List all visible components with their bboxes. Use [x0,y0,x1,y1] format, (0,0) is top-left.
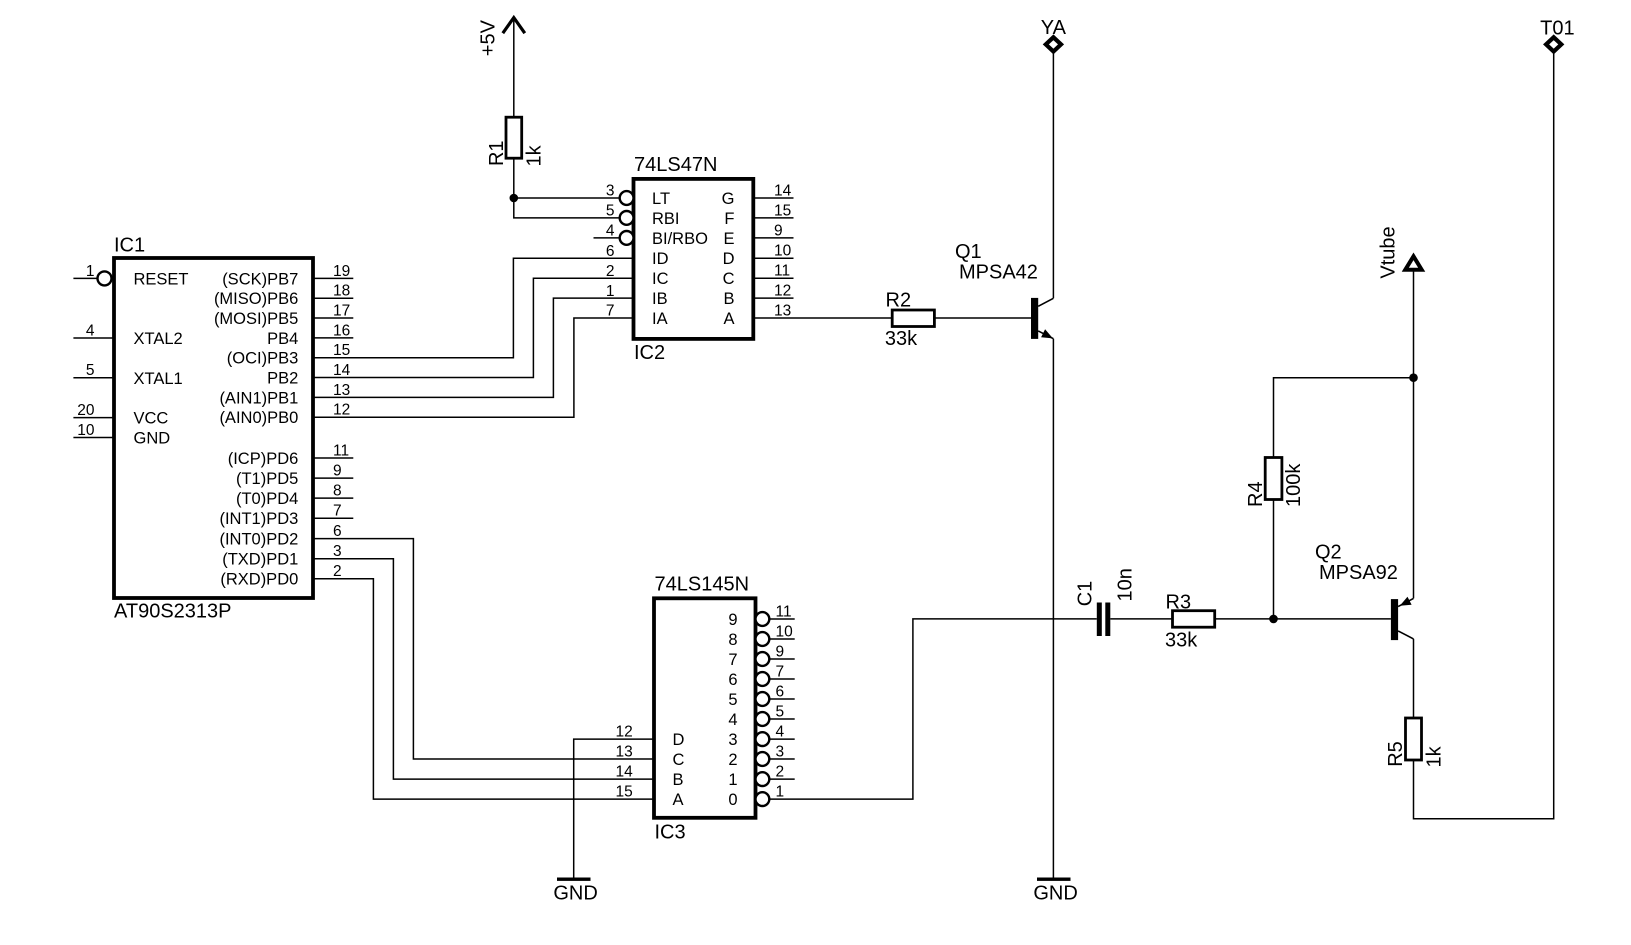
IC2 pin 10 D [723,243,794,269]
IC1 pin 16 PB4 [267,322,353,348]
svg-text:Vtube: Vtube [1378,226,1400,278]
wire net PB0: IC1 pin 12 to IC2 pin 7 IA [313,318,634,417]
wire R5 to T01 [1414,51,1554,819]
IC3 pin 4 output 3 [728,724,794,750]
svg-text:B: B [673,771,684,789]
svg-text:(MISO)PB6: (MISO)PB6 [214,290,298,308]
svg-text:12: 12 [774,283,791,300]
svg-text:0: 0 [728,791,737,809]
svg-text:R5: R5 [1385,741,1407,767]
svg-text:8: 8 [728,631,737,649]
svg-text:4: 4 [728,711,737,729]
svg-text:6: 6 [728,671,737,689]
capacitor C1 [1075,581,1111,636]
svg-text:3: 3 [333,543,342,560]
svg-text:YA: YA [1041,17,1067,39]
svg-text:LT: LT [652,190,670,208]
svg-text:F: F [724,210,734,228]
svg-text:8: 8 [333,483,342,500]
svg-text:2: 2 [333,563,342,580]
svg-text:IA: IA [652,310,668,328]
svg-text:5: 5 [606,203,615,220]
svg-text:ID: ID [652,250,669,268]
svg-text:9: 9 [728,611,737,629]
node Vtube terminal [1378,226,1422,278]
IC3 pin 9 output 7 [728,643,794,669]
svg-text:IC1: IC1 [114,235,145,257]
IC1 pin 15 (OCI)PB3 [227,342,350,368]
svg-text:1: 1 [606,283,615,300]
svg-text:C1: C1 [1075,581,1097,607]
svg-text:17: 17 [333,302,350,319]
wire Q2 collector to R5 [1413,639,1415,718]
IC2 pin 3 LT [606,183,670,208]
svg-text:15: 15 [774,202,791,219]
svg-text:10: 10 [776,623,794,640]
svg-text:(MOSI)PB5: (MOSI)PB5 [214,310,298,328]
IC1 pin 13 (AIN1)PB1 [219,382,350,408]
IC1 pin 17 (MOSI)PB5 [214,302,353,328]
svg-text:2: 2 [606,263,615,280]
svg-text:4: 4 [776,724,785,741]
svg-text:3: 3 [606,183,615,200]
svg-text:13: 13 [774,302,791,319]
wire R4 bottom to base node [1273,500,1275,619]
IC2 pin 11 C [723,263,794,289]
svg-text:(INT1)PD3: (INT1)PD3 [219,510,298,528]
svg-text:18: 18 [333,283,350,300]
IC IC3 74LS145N box [654,574,756,844]
wire net PB2: IC1 pin 14 to IC2 pin 2 IC [313,278,634,377]
IC1 pin 9 (T1)PD5 [236,463,353,489]
svg-text:7: 7 [606,303,615,320]
svg-text:R2: R2 [886,290,912,312]
node YA terminal [1041,17,1067,52]
svg-text:4: 4 [86,322,95,339]
svg-text:16: 16 [333,322,350,339]
IC3 pin 13 C [616,743,685,769]
transistor Q1 MPSA42 (NPN) [955,241,1053,339]
wire net PD0: IC1 pin 2 to IC3 pin 15 A [313,579,654,799]
IC1 pin 7 (INT1)PD3 [219,503,353,529]
IC2 pin 9 E [723,222,793,248]
svg-text:IB: IB [652,290,668,308]
svg-text:100k: 100k [1283,463,1305,507]
svg-text:RBI: RBI [652,210,680,228]
svg-text:10: 10 [774,243,792,260]
svg-text:3: 3 [776,743,785,760]
svg-text:1: 1 [776,784,785,801]
svg-text:(SCK)PB7: (SCK)PB7 [222,270,298,288]
IC3 pin 14 B [616,764,684,790]
wire YA to Q1 collector [1052,51,1054,298]
IC1 pin 2 (RXD)PD0 [220,563,341,589]
svg-text:1k: 1k [524,144,546,166]
resistor R1 [486,117,522,166]
svg-text:19: 19 [333,263,350,280]
svg-text:A: A [673,791,684,809]
IC1 pin 12 (AIN0)PB0 [219,402,350,428]
svg-text:XTAL2: XTAL2 [134,330,183,348]
svg-text:R3: R3 [1166,591,1192,613]
IC2 pin 14 G [722,182,794,208]
svg-text:RESET: RESET [134,270,189,288]
IC1 pin 1 RESET [73,263,188,289]
IC3 pin 11 output 9 [728,603,794,629]
wire R1 to junction and IC2 pin 5 RBI [514,158,620,218]
wire IC2 pin 13 A to R2 [753,317,892,319]
wire +5V to R1 [513,20,515,117]
svg-text:13: 13 [333,382,350,399]
svg-text:PB2: PB2 [267,370,298,388]
wire net PD1: IC1 pin 3 to IC3 pin 14 B [313,559,654,779]
svg-text:+5V: +5V [478,19,500,56]
resistor R2 [886,290,935,327]
IC3 pin 10 output 8 [728,623,794,649]
wire net PB3: IC1 pin 15 to IC2 pin 6 ID [313,258,634,358]
svg-text:9: 9 [776,643,785,660]
IC2 pin 15 F [724,202,793,228]
svg-text:12: 12 [616,724,633,741]
svg-text:1: 1 [86,263,95,280]
svg-text:E: E [723,230,734,248]
wire R2 to Q1 base [934,317,1031,319]
svg-text:R1: R1 [486,140,508,166]
wire junction to IC2 pin 3 LT [514,197,620,199]
wire net PD2: IC1 pin 6 to IC3 pin 13 C [313,539,654,759]
IC U IC1 AT90S2313P box [114,235,313,623]
svg-text:T01: T01 [1540,17,1574,39]
svg-text:1: 1 [728,771,737,789]
svg-text:GND: GND [553,882,597,904]
svg-text:VCC: VCC [134,410,169,428]
junction dot R4/R3 node [1269,615,1278,624]
svg-text:13: 13 [616,743,633,760]
svg-text:6: 6 [333,523,342,540]
wire Vtube node to R4 top [1274,378,1414,458]
svg-text:20: 20 [77,402,95,419]
IC1 pin 10 GND [73,422,170,448]
svg-text:9: 9 [333,463,342,480]
IC1 pin 11 (ICP)PD6 [228,442,354,468]
svg-text:D: D [723,250,735,268]
IC IC2 74LS47N box [634,154,754,364]
IC3 pin 7 output 6 [728,663,794,689]
svg-text:(T1)PD5: (T1)PD5 [236,470,298,488]
svg-text:33k: 33k [1165,629,1198,651]
IC2 pin 7 IA [606,303,668,328]
svg-text:7: 7 [728,651,737,669]
wire Q1 emitter to GND [1052,339,1054,878]
wire Vtube to Q2 emitter [1413,270,1415,599]
svg-text:MPSA42: MPSA42 [959,261,1038,283]
svg-text:(RXD)PD0: (RXD)PD0 [220,571,298,589]
svg-text:C: C [723,270,735,288]
IC1 pin 18 (MISO)PB6 [214,283,353,309]
wire C1 to R3 [1110,618,1172,620]
resistor R3 [1166,591,1215,627]
ground GND under Q1 [1033,878,1077,905]
svg-text:14: 14 [774,182,792,199]
svg-text:C: C [673,751,685,769]
IC2 pin 6 ID [606,243,669,268]
IC3 pin 1 output 0 [728,784,784,810]
wire net IC3 pin 1 output 0 to C1 [769,619,1097,799]
svg-text:AT90S2313P: AT90S2313P [114,601,232,623]
svg-text:(ICP)PD6: (ICP)PD6 [228,450,299,468]
svg-text:(TXD)PD1: (TXD)PD1 [222,551,298,569]
svg-text:G: G [722,190,735,208]
svg-text:BI/RBO: BI/RBO [652,230,708,248]
IC3 pin 2 output 1 [728,764,794,790]
junction dot at R1/LT [510,194,519,203]
svg-text:11: 11 [333,442,349,459]
svg-text:IC: IC [652,270,669,288]
svg-text:12: 12 [333,402,350,419]
svg-text:6: 6 [776,683,785,700]
svg-text:MPSA92: MPSA92 [1319,562,1398,584]
svg-text:14: 14 [333,362,351,379]
svg-text:10n: 10n [1115,568,1137,601]
IC1 pin 6 (INT0)PD2 [219,523,341,549]
svg-text:D: D [673,731,685,749]
svg-text:IC2: IC2 [634,342,665,364]
svg-text:74LS47N: 74LS47N [634,154,717,176]
svg-text:15: 15 [616,784,633,801]
svg-text:15: 15 [333,342,350,359]
IC1 pin 20 VCC [73,402,168,428]
IC1 pin 14 PB2 [267,362,351,388]
wire net PB1: IC1 pin 13 to IC2 pin 1 IB [313,298,634,397]
IC3 pin 3 output 2 [728,743,794,769]
svg-text:2: 2 [728,751,737,769]
node T01 terminal [1540,17,1574,51]
svg-text:4: 4 [606,223,615,240]
svg-text:5: 5 [728,691,737,709]
wire R3 to Q2 base [1215,618,1391,620]
IC1 pin 4 XTAL2 [73,322,182,348]
svg-text:7: 7 [776,663,785,680]
svg-text:7: 7 [333,503,342,520]
svg-text:(AIN0)PB0: (AIN0)PB0 [219,409,298,427]
svg-text:2: 2 [776,764,785,781]
svg-text:10: 10 [77,422,95,439]
IC1 pin 5 XTAL1 [73,362,182,388]
IC1 pin 3 (TXD)PD1 [222,543,341,569]
IC2 pin 1 IB [606,283,668,308]
ground GND under IC3 [553,878,597,905]
svg-text:11: 11 [776,603,792,620]
svg-text:14: 14 [616,764,634,781]
svg-text:33k: 33k [885,328,918,350]
IC2 pin 5 RBI [606,203,680,228]
resistor R4 [1245,458,1282,508]
svg-text:3: 3 [728,731,737,749]
svg-text:XTAL1: XTAL1 [134,370,183,388]
transistor Q2 MPSA92 (PNP) [1315,542,1414,640]
svg-text:B: B [723,290,734,308]
svg-text:74LS145N: 74LS145N [655,574,750,596]
svg-text:(T0)PD4: (T0)PD4 [236,490,298,508]
IC2 pin 13 A [723,302,791,328]
svg-text:A: A [723,310,734,328]
IC3 pin 15 A [616,784,684,810]
IC3 pin 6 output 5 [728,683,794,709]
svg-text:1k: 1k [1424,745,1446,767]
svg-text:(INT0)PD2: (INT0)PD2 [219,531,298,549]
svg-text:5: 5 [86,362,95,379]
IC1 pin 8 (T0)PD4 [236,483,353,509]
IC3 pin 5 output 4 [728,703,794,729]
IC2 pin 12 B [723,283,793,309]
svg-text:IC3: IC3 [655,822,686,844]
svg-text:9: 9 [774,222,783,239]
svg-text:5: 5 [776,703,785,720]
junction dot on Vtube line [1409,373,1418,382]
svg-text:GND: GND [1033,882,1077,904]
svg-text:6: 6 [606,243,615,260]
resistor R5 [1385,718,1422,767]
svg-text:(OCI)PB3: (OCI)PB3 [227,350,299,368]
supply +5V symbol [478,18,525,57]
IC2 pin 2 IC [606,263,669,288]
svg-text:11: 11 [774,263,790,280]
svg-text:PB4: PB4 [267,330,298,348]
svg-text:Q1: Q1 [955,241,982,263]
svg-text:R4: R4 [1245,481,1267,507]
IC2 pin 4 BI/RBO [594,223,709,248]
svg-text:Q2: Q2 [1315,542,1342,564]
wire IC3 pin 12 D to GND [574,739,654,878]
IC1 pin 19 (SCK)PB7 [222,263,353,289]
svg-text:(AIN1)PB1: (AIN1)PB1 [219,389,298,407]
svg-text:GND: GND [134,430,171,448]
IC3 pin 12 D [616,724,685,750]
